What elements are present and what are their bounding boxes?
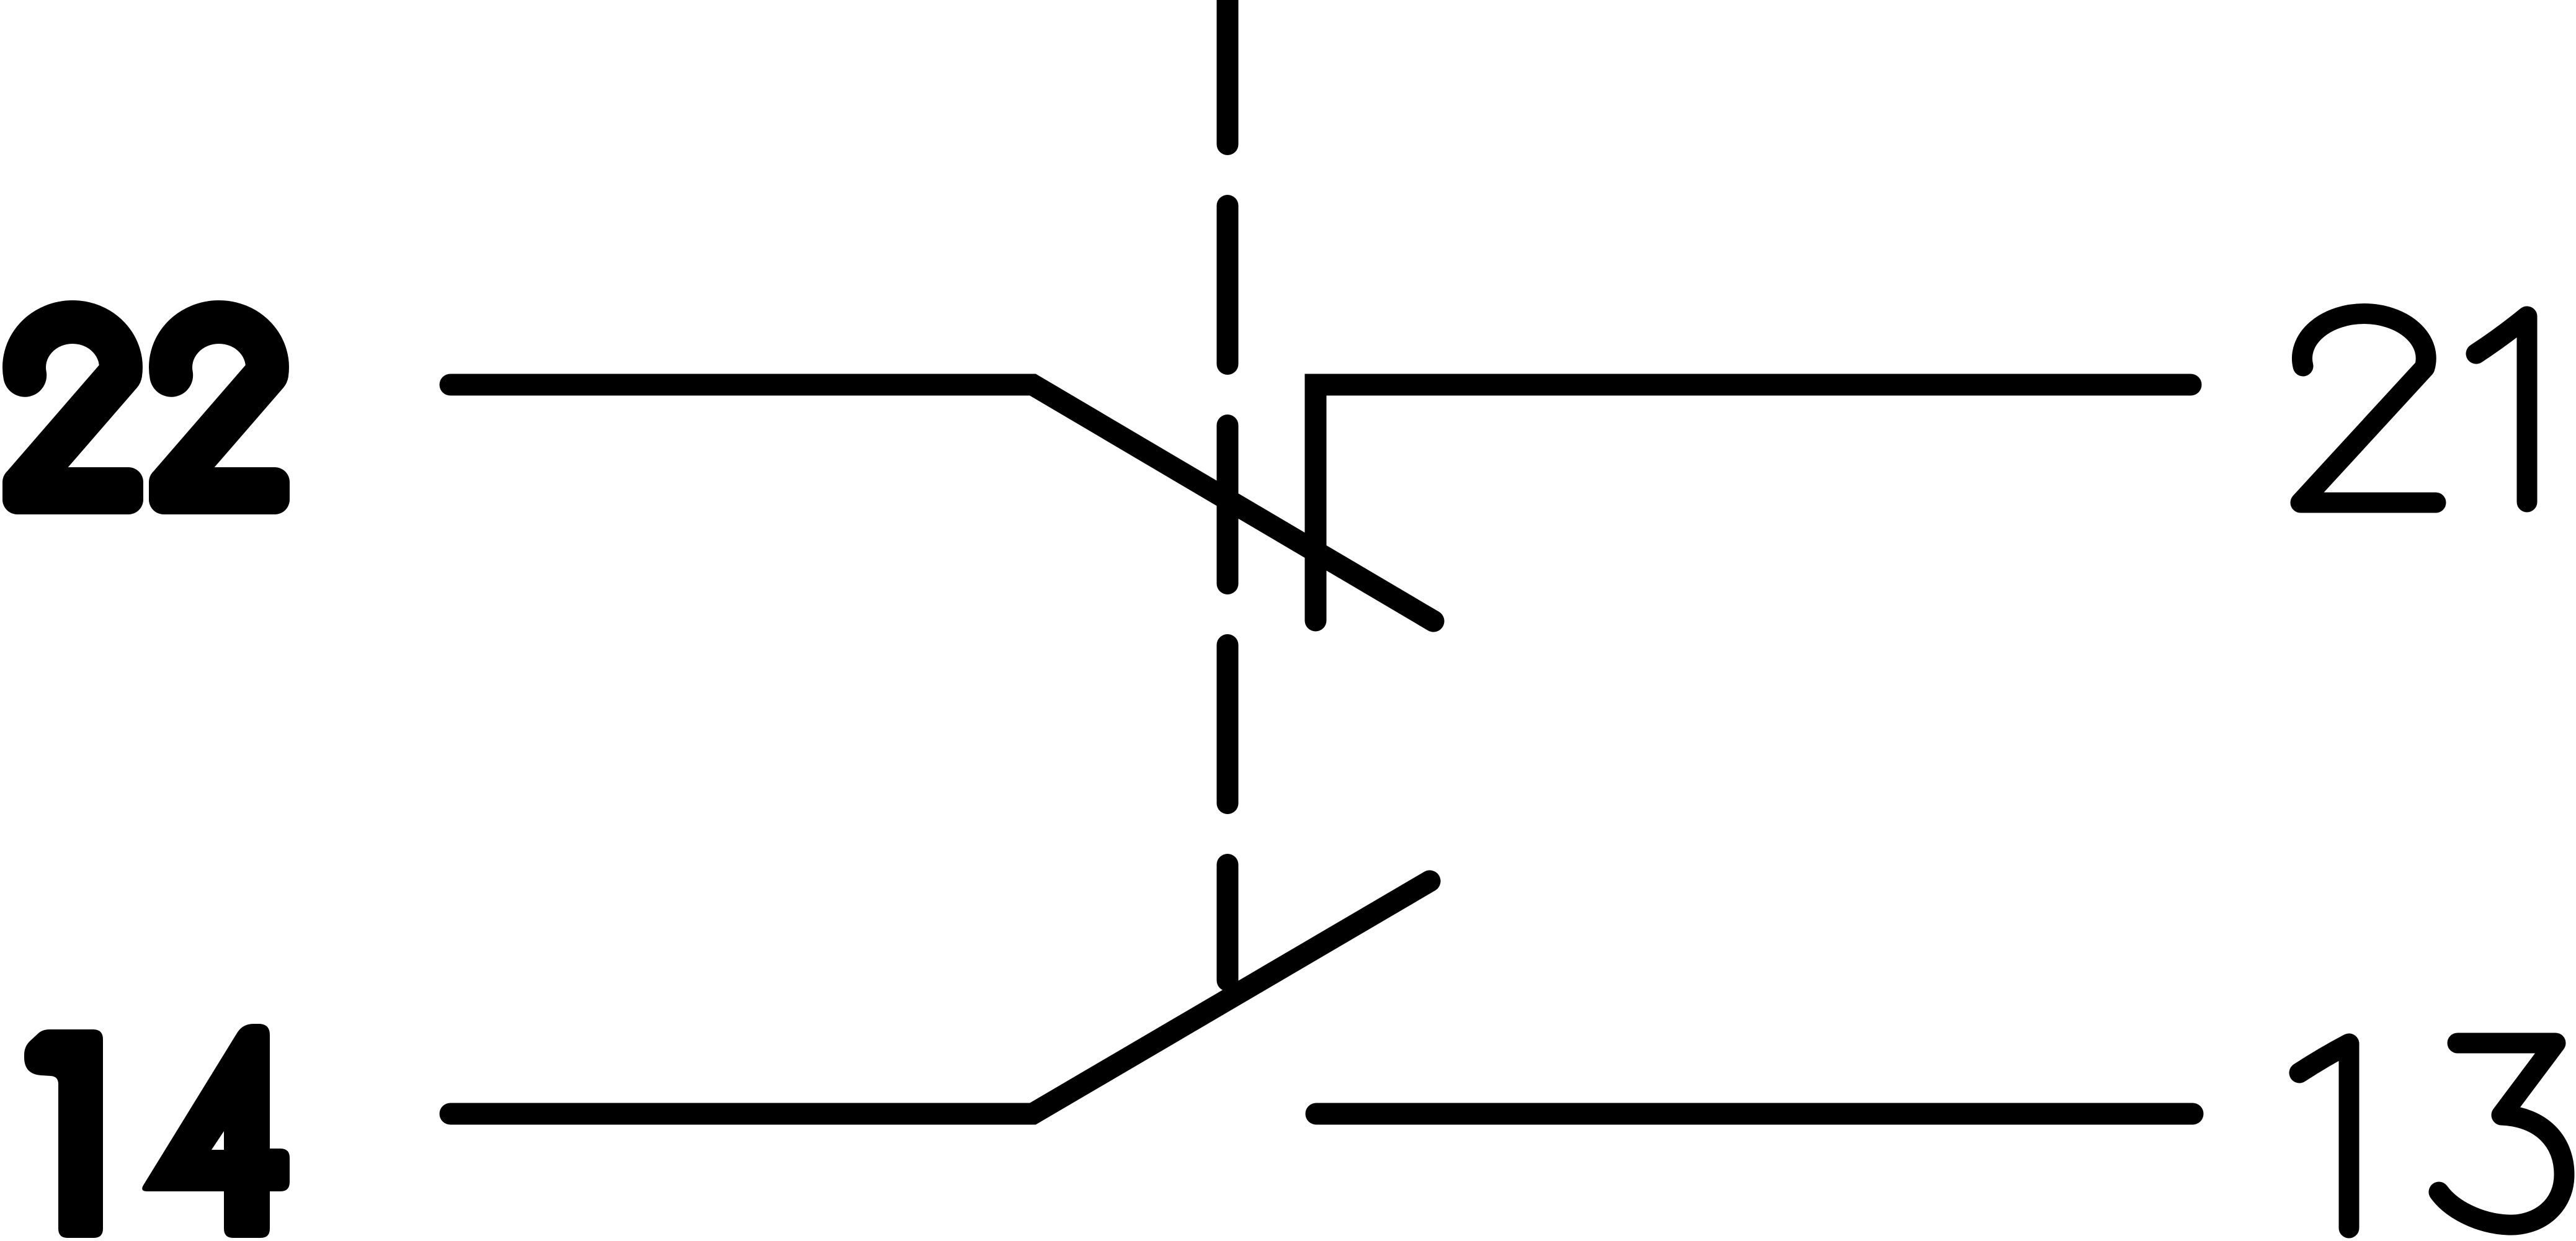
NC contact: wire to terminal 22 and moving contact bar [450,385,1433,621]
label 21 [2301,314,2527,503]
NC contact: fixed contact stub and wire to terminal 21 [1316,385,2191,620]
label 14 digit 4 [142,1024,290,1238]
label 22 [24,322,267,484]
label 22 bottom bars [2,467,290,514]
actuator dashed line [1217,0,1239,980]
label 14 digit 1 [24,1029,103,1238]
label 13 [2299,1043,2564,1228]
NO contact: wire to terminal 14 and moving contact bar [450,881,1430,1114]
NO contact: wire to terminal 13 [1316,1103,2193,1125]
